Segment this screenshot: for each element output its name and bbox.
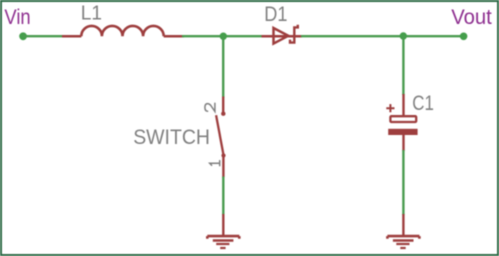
switch SW1 — [216, 97, 225, 178]
node Vout junction dot — [460, 33, 468, 41]
svg-text:C1: C1 — [412, 92, 434, 115]
svg-text:Vin: Vin — [4, 6, 30, 29]
svg-text:SWITCH: SWITCH — [133, 125, 210, 149]
svg-text:L1: L1 — [81, 3, 102, 25]
wire switch to ground — [222, 177, 224, 216]
label C1 — [412, 92, 434, 115]
capacitor C1 (polarized) — [388, 94, 417, 151]
wire junction to capacitor — [402, 36, 404, 95]
junction at capacitor branch — [400, 32, 407, 39]
pin number 1 — [210, 161, 220, 166]
inductor L1 — [62, 26, 184, 36]
ground right — [387, 214, 419, 248]
plus sign of C1 — [386, 104, 394, 112]
wire L1 to D1 — [182, 35, 263, 37]
label D1 — [264, 3, 287, 26]
net label Vin — [4, 6, 30, 29]
wire junction to switch — [222, 36, 224, 98]
wire D1 to Vout — [301, 35, 464, 37]
node Vin junction dot — [19, 32, 27, 40]
diode D1 (Schottky) — [262, 25, 303, 44]
pin number 2 — [205, 103, 215, 111]
label SWITCH — [133, 125, 210, 149]
wire capacitor to ground — [402, 150, 404, 215]
net label Vout — [451, 6, 492, 29]
svg-text:Vout: Vout — [451, 6, 492, 29]
junction at switch branch — [220, 33, 227, 40]
label L1 — [81, 3, 102, 25]
wire Vin to L1 — [23, 35, 64, 37]
svg-text:D1: D1 — [264, 3, 287, 26]
ground left — [207, 214, 239, 248]
